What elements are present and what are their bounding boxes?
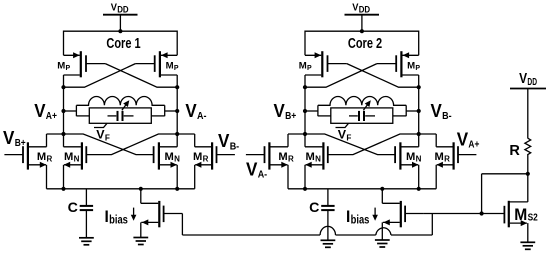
label MP left core 2 bbox=[299, 61, 312, 72]
resistor R bbox=[525, 138, 531, 154]
svg-text:R: R bbox=[47, 154, 53, 163]
arrow Ibias down core 2 bbox=[372, 208, 378, 221]
svg-text:C: C bbox=[309, 200, 319, 216]
junction dot left cross node (core 2) bbox=[303, 132, 307, 136]
varactor box (core 2) bbox=[331, 108, 393, 123]
junction dot MS2 gate node bbox=[480, 211, 484, 215]
svg-text:Core 2: Core 2 bbox=[348, 36, 382, 52]
wire tail rail (core 1) bbox=[47, 188, 195, 190]
svg-text:M: M bbox=[64, 151, 73, 163]
junction dot VDD rail (core 2) bbox=[360, 29, 364, 33]
label node VA+ core 1 bbox=[34, 101, 57, 122]
svg-text:DD: DD bbox=[359, 5, 371, 15]
wire bias line core 1 to node bbox=[182, 214, 432, 236]
junction dot tail right (core 2) bbox=[417, 187, 421, 191]
svg-text:N: N bbox=[416, 154, 422, 163]
wire left output node vertical (core 1) bbox=[63, 75, 65, 147]
wire tank right stub (core 1) bbox=[165, 105, 178, 116]
pmos MP left (core 2) bbox=[305, 51, 347, 77]
svg-text:M: M bbox=[299, 61, 307, 72]
arrow Ibias down core 1 bbox=[131, 208, 137, 221]
label MN right core 2 bbox=[406, 151, 422, 164]
junction dot VDD rail (core 1) bbox=[118, 29, 122, 33]
wire MR right drain/source verticals (core 1) bbox=[194, 134, 196, 189]
capacitor varactor C tank (core 1) bbox=[76, 111, 164, 121]
junction dot tail right (core 1) bbox=[175, 187, 179, 191]
label MS2 bbox=[514, 206, 538, 224]
svg-text:A+: A+ bbox=[46, 110, 57, 122]
svg-text:B-: B- bbox=[442, 110, 452, 122]
svg-text:R: R bbox=[444, 154, 450, 163]
wire drain tie left (core 2) bbox=[288, 133, 305, 135]
svg-text:M: M bbox=[278, 151, 287, 163]
transistor tail current source (core 1) bbox=[141, 189, 164, 237]
svg-text:V: V bbox=[218, 131, 229, 151]
label MN right core 1 bbox=[165, 151, 181, 164]
wire pmos cross-couple B (core 2) bbox=[305, 64, 377, 88]
svg-text:R: R bbox=[203, 154, 209, 163]
svg-text:V: V bbox=[457, 129, 469, 150]
label node VB+ core 2 bbox=[274, 101, 297, 122]
svg-text:A-: A- bbox=[197, 110, 207, 122]
VDD supply symbol (core 1) bbox=[103, 15, 138, 32]
wire bias gate line to MS2 bbox=[424, 213, 505, 215]
label MN left core 1 bbox=[64, 151, 80, 164]
label input VA- core 2 bbox=[246, 158, 268, 180]
junction dot right drain node (core 1) bbox=[175, 85, 179, 89]
junction dot left tank (core 1) bbox=[61, 109, 65, 113]
svg-text:V: V bbox=[519, 71, 527, 87]
svg-text:M: M bbox=[57, 61, 65, 72]
label VDD core 2 bbox=[352, 2, 370, 15]
svg-text:A-: A- bbox=[258, 169, 268, 181]
svg-text:B+: B+ bbox=[285, 110, 296, 122]
wire left output node vertical (core 2) bbox=[304, 75, 306, 147]
label MR left core 2 bbox=[278, 151, 294, 164]
junction dot right cross node (core 1) bbox=[175, 132, 179, 136]
label R bbox=[509, 143, 520, 159]
capacitor varactor C tank (core 2) bbox=[318, 111, 406, 121]
junction dot right cross node (core 2) bbox=[417, 132, 421, 136]
VDD supply symbol right bbox=[510, 89, 546, 139]
junction dot right tank (core 2) bbox=[417, 109, 421, 113]
label Ibias core 2 bbox=[346, 208, 369, 226]
top rail wire (core 2) bbox=[305, 31, 419, 55]
nmos MR right (core 2) bbox=[436, 142, 476, 169]
label MP left core 1 bbox=[57, 61, 70, 72]
svg-text:P: P bbox=[174, 65, 179, 72]
label VF (core 1) bbox=[96, 128, 110, 143]
svg-text:N: N bbox=[174, 154, 180, 163]
transistor tail current source (core 2) bbox=[382, 189, 405, 240]
junction dot left drain node (core 2) bbox=[303, 85, 307, 89]
wire nmos cross-couple B (core 1) bbox=[86, 134, 177, 155]
wire MR left drain/source verticals (core 1) bbox=[46, 134, 48, 189]
wire tank right stub (core 2) bbox=[406, 105, 419, 116]
wire nmos cross-couple A (core 1) bbox=[64, 134, 154, 155]
svg-text:M: M bbox=[166, 61, 174, 72]
ground under tail transistor (core 2) bbox=[375, 240, 390, 247]
tuning arrow (core 1) bbox=[122, 98, 132, 110]
svg-text:M: M bbox=[306, 151, 315, 163]
nmos MN left (core 1) bbox=[64, 142, 87, 169]
label node VB- core 2 bbox=[431, 101, 453, 122]
capacitor C tail (core 2) bbox=[321, 189, 334, 240]
wire pmos cross-couple A (core 2) bbox=[347, 64, 419, 88]
junction dot left drain node (core 1) bbox=[61, 85, 65, 89]
label input VB- core 1 bbox=[218, 131, 240, 152]
wire VF control lead (core 1) bbox=[94, 123, 107, 127]
svg-text:B+: B+ bbox=[15, 137, 26, 149]
wire pmos cross-couple A (core 1) bbox=[105, 64, 177, 88]
label Core 1 bbox=[106, 36, 140, 52]
capacitor C tail (core 1) bbox=[80, 189, 93, 238]
wire MR left drain/source verticals (core 2) bbox=[287, 134, 289, 189]
wire drain tie left (core 1) bbox=[47, 133, 64, 135]
wire MR right drain/source verticals (core 2) bbox=[435, 134, 437, 189]
ground under MS2 bbox=[520, 242, 535, 249]
svg-text:bias: bias bbox=[109, 215, 128, 227]
nmos MN left (core 2) bbox=[305, 142, 328, 169]
label C core 1 bbox=[68, 200, 78, 216]
ground under C (core 1) bbox=[79, 238, 94, 245]
wire drain tie right (core 2) bbox=[419, 133, 437, 135]
svg-text:V: V bbox=[274, 101, 285, 121]
svg-text:M: M bbox=[407, 61, 415, 72]
svg-text:M: M bbox=[37, 151, 46, 163]
svg-text:M: M bbox=[435, 151, 444, 163]
label VDD right bbox=[519, 71, 537, 88]
wire tank left stub (core 1) bbox=[64, 105, 77, 116]
nmos MR left (core 2) bbox=[246, 142, 288, 169]
svg-text:DD: DD bbox=[117, 5, 129, 15]
svg-text:M: M bbox=[193, 151, 202, 163]
svg-text:F: F bbox=[105, 134, 110, 143]
junction dot R bottom node bbox=[526, 172, 530, 176]
svg-text:M: M bbox=[514, 206, 527, 224]
wire tail rail (core 2) bbox=[288, 188, 436, 190]
label MR left core 1 bbox=[37, 151, 53, 164]
junction dot tail left (core 1) bbox=[61, 187, 65, 191]
label node VA- core 1 bbox=[185, 101, 207, 122]
svg-text:P: P bbox=[66, 65, 71, 72]
svg-text:V: V bbox=[111, 2, 117, 14]
svg-text:N: N bbox=[74, 154, 80, 163]
label VDD core 1 bbox=[111, 2, 129, 15]
wire drain tie right (core 1) bbox=[177, 133, 195, 135]
nmos MR left (core 1) bbox=[4, 142, 46, 169]
wire bias gate lead (core 2) bbox=[405, 213, 424, 215]
junction dot tail bias (core 1) bbox=[139, 187, 143, 191]
nmos MN right (core 1) bbox=[154, 142, 178, 169]
transistor MS2 bbox=[504, 201, 527, 242]
svg-text:A+: A+ bbox=[468, 139, 479, 151]
VDD supply symbol (core 2) bbox=[345, 15, 380, 32]
nmos MN right (core 2) bbox=[395, 142, 419, 169]
ground under tail transistor (core 1) bbox=[133, 238, 148, 245]
wire pmos cross-couple B (core 1) bbox=[64, 64, 136, 88]
svg-text:Core 1: Core 1 bbox=[106, 36, 140, 52]
svg-text:V: V bbox=[431, 101, 442, 121]
label MN left core 2 bbox=[306, 151, 322, 164]
junction dot right tank (core 1) bbox=[175, 109, 179, 113]
svg-text:V: V bbox=[185, 101, 196, 121]
wire nmos cross-couple B (core 2) bbox=[328, 134, 419, 155]
pmos MP right (core 2) bbox=[377, 51, 419, 77]
svg-text:M: M bbox=[406, 151, 415, 163]
label MR right core 2 bbox=[435, 151, 451, 164]
wire right output node vertical (core 2) bbox=[418, 75, 420, 147]
pmos MP right (core 1) bbox=[135, 51, 177, 77]
pmos MP left (core 1) bbox=[64, 51, 106, 77]
inductor L tank (core 2) bbox=[318, 96, 406, 105]
junction dot tail left (core 2) bbox=[303, 187, 307, 191]
wire right output node vertical (core 1) bbox=[176, 75, 178, 147]
svg-text:V: V bbox=[3, 127, 15, 148]
label MR right core 1 bbox=[193, 151, 209, 164]
wire R bottom to MS2 drain bbox=[527, 154, 529, 202]
label input VB+ core 1 bbox=[3, 127, 26, 149]
label input VA+ core 2 bbox=[457, 129, 480, 151]
wire tank left stub (core 2) bbox=[305, 105, 318, 116]
svg-text:C: C bbox=[68, 200, 78, 216]
svg-text:B-: B- bbox=[230, 140, 240, 152]
nmos MR right (core 1) bbox=[195, 142, 235, 169]
wire bias gate lead (core 1) bbox=[164, 213, 183, 215]
junction dot right drain node (core 2) bbox=[417, 85, 421, 89]
label VF (core 2) bbox=[338, 128, 352, 143]
svg-text:M: M bbox=[165, 151, 174, 163]
label MP right core 2 bbox=[407, 61, 420, 72]
wire nmos cross-couple A (core 2) bbox=[305, 134, 395, 155]
wire diode connection bbox=[482, 174, 528, 214]
label C core 2 bbox=[309, 200, 319, 216]
inductor L tank (core 1) bbox=[76, 97, 164, 106]
svg-text:DD: DD bbox=[527, 77, 537, 88]
label Ibias core 1 bbox=[105, 208, 128, 226]
svg-text:V: V bbox=[246, 158, 258, 179]
junction dot left tank (core 2) bbox=[303, 109, 307, 113]
junction dot left cross node (core 1) bbox=[61, 132, 65, 136]
svg-text:F: F bbox=[346, 134, 351, 143]
wire VF control lead (core 2) bbox=[336, 123, 349, 127]
svg-text:S2: S2 bbox=[528, 213, 539, 224]
svg-text:bias: bias bbox=[351, 215, 370, 227]
tuning arrow (core 2) bbox=[363, 98, 373, 110]
top rail wire (core 1) bbox=[64, 31, 178, 55]
svg-text:P: P bbox=[307, 65, 312, 72]
label Core 2 bbox=[348, 36, 382, 52]
label MP right core 1 bbox=[166, 61, 179, 72]
svg-text:P: P bbox=[415, 65, 420, 72]
svg-text:R: R bbox=[288, 154, 294, 163]
wire MN left source vertical (core 1) bbox=[63, 165, 65, 189]
wire MN left source vertical (core 2) bbox=[304, 165, 306, 189]
svg-text:N: N bbox=[315, 154, 321, 163]
ground under C (core 2) bbox=[321, 240, 336, 247]
svg-text:V: V bbox=[34, 101, 45, 121]
wire MN right source vertical (core 2) bbox=[418, 165, 420, 189]
svg-text:V: V bbox=[352, 2, 358, 14]
svg-text:R: R bbox=[509, 143, 520, 159]
wire MN right source vertical (core 1) bbox=[176, 165, 178, 189]
junction dot tail bias (core 2) bbox=[380, 187, 384, 191]
varactor box (core 1) bbox=[89, 108, 151, 123]
